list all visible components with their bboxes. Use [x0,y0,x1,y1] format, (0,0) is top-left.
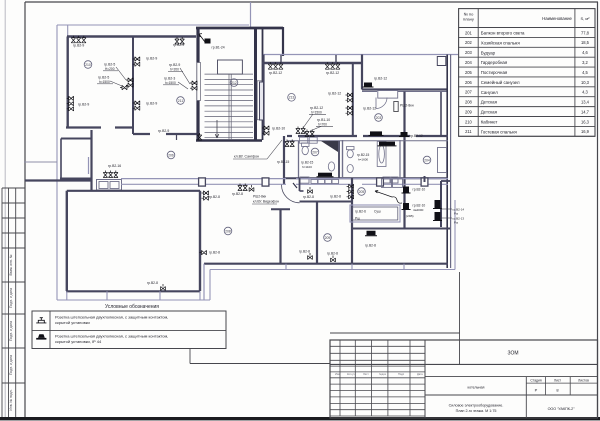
room number circles [84,61,92,69]
svg-text:гр.В2-8: гр.В2-8 [365,244,376,248]
svg-text:Подп. и дата: Подп. и дата [9,355,13,375]
svg-text:h=200: h=200 [170,67,179,71]
svg-text:гр.В2-9: гр.В2-9 [78,103,89,107]
fixtures bathroom 206 [347,142,387,173]
svg-text:h=1500: h=1500 [99,80,110,84]
svg-text:Розетка штепсельная двухполюсн: Розетка штепсельная двухполюсная, с защи… [55,334,168,339]
svg-text:4,6: 4,6 [582,50,588,55]
wall: bathroom top band [287,135,292,137]
svg-text:204: 204 [424,158,430,162]
svg-text:210: 210 [465,119,473,124]
svg-text:h=700: h=700 [318,122,327,126]
wall: room 202 bottom [362,88,448,90]
title block (osnovnaya nadpis) [330,332,460,334]
svg-text:Условные обозначения: Условные обозначения [105,304,159,310]
svg-text:Гостевая спальня: Гостевая спальня [481,129,518,134]
svg-text:210: 210 [85,63,91,67]
svg-text:гр.В2-15: гр.В2-15 [277,160,290,164]
callout box bud [350,205,400,222]
svg-text:План 2-го этажа. М 1:75: План 2-го этажа. М 1:75 [456,409,497,413]
wall: bottom band right rooms [204,263,448,265]
wall posts [199,178,206,186]
stair down arrow [215,120,219,138]
svg-text:203: 203 [376,116,382,120]
svg-text:гр.В2-6: гр.В2-6 [355,210,366,214]
svg-text:201: 201 [465,30,473,35]
door arc room 203 [376,98,387,109]
svg-text:211: 211 [465,129,472,134]
svg-text:Семейный санузел: Семейный санузел [481,80,520,85]
svg-text:гр.В2-12: гр.В2-12 [326,71,339,75]
svg-text:4,5: 4,5 [582,70,588,75]
wall: bottom of room 211 [133,133,150,135]
svg-text:208: 208 [465,100,473,105]
wall: left part y180 to frame [25,179,91,181]
svg-text:Инв. № подл.: Инв. № подл. [9,389,13,410]
svg-text:гр.В2-12: гр.В2-12 [269,71,282,75]
wall: y228.5 [352,228,450,230]
svg-text:3,2: 3,2 [582,60,588,65]
connector line from plan to stamp [459,272,461,340]
wall: left wall room 213 [262,55,264,136]
wall: big room 208 [67,190,200,192]
kitchen counter cells [300,137,308,143]
svg-text:207: 207 [465,90,473,95]
svg-text:202: 202 [465,40,473,45]
svg-text:Стадия: Стадия [530,379,541,383]
svg-text:ЗОМ: ЗОМ [507,351,518,357]
wall: long top band right part [263,54,458,56]
svg-text:гр.В2-8: гр.В2-8 [147,281,158,285]
svg-text:16,9: 16,9 [581,129,590,134]
svg-text:16,3: 16,3 [581,119,590,124]
svg-text:18,5: 18,5 [581,40,590,45]
svg-text:Рш: Рш [454,221,459,225]
svg-text:13,4: 13,4 [581,100,590,105]
facade tie top-left [67,25,69,37]
door jamb x299 [299,178,301,191]
svg-text:Лист: Лист [554,379,562,383]
stair stringer [228,74,230,140]
svg-text:скрытой установки, IP 44: скрытой установки, IP 44 [55,339,102,344]
wall: partition T x280 [271,208,290,210]
svg-text:S, м²: S, м² [580,16,590,21]
svg-text:РШ2-8кн: РШ2-8кн [253,195,266,199]
svg-text:кл.ВУ. Видеофон: кл.ВУ. Видеофон [253,200,279,204]
svg-text:Подп. и дата: Подп. и дата [9,321,13,341]
svg-text:гр.В2-10: гр.В2-10 [413,188,426,192]
svg-text:209: 209 [465,109,473,114]
svg-text:Балкон второго света: Балкон второго света [481,31,525,36]
svg-text:Хозяйская спальня: Хозяйская спальня [481,40,521,45]
svg-text:207: 207 [312,150,318,154]
svg-text:гр.В2-10: гр.В2-10 [272,127,285,131]
svg-text:Гардеробная: Гардеробная [481,60,508,65]
svg-text:Постирочная: Постирочная [481,70,508,75]
svg-text:209: 209 [325,236,331,240]
bathroom 206 walls [342,140,344,178]
svg-text:203: 203 [465,50,473,55]
svg-text:Санузел: Санузел [481,90,499,95]
door arc corridor [282,185,300,203]
svg-text:205: 205 [465,70,473,75]
svg-text:h=1100: h=1100 [302,165,312,169]
shaft walls [61,138,91,140]
svg-text:h=1500: h=1500 [165,81,176,85]
svg-text:гр.В2-12: гр.В2-12 [363,107,376,111]
svg-text:208: 208 [225,229,231,233]
wall: left wall room 210 [66,37,68,128]
svg-text:212: 212 [231,81,237,85]
svg-text:Рш: Рш [454,212,459,216]
svg-text:Взам. инв. №: Взам. инв. № [9,254,13,275]
svg-text:Р: Р [535,388,538,393]
stair treads [205,74,254,138]
svg-text:гр.В2-9: гр.В2-9 [158,129,169,133]
svg-text:Рш: Рш [355,217,360,221]
bathroom 207 walls [298,141,300,178]
wall: stub x424 [424,176,426,182]
svg-text:скрытой установки: скрытой установки [55,320,90,325]
svg-text:Подп. и дата: Подп. и дата [9,288,13,308]
svg-text:Будуар: Будуар [481,50,496,55]
svg-text:Кабинет: Кабинет [481,120,498,125]
svg-text:h=1600: h=1600 [358,157,368,161]
door jamb below room 211 [176,135,178,140]
svg-text:гр.В2-8: гр.В2-8 [330,195,341,199]
wall: building right wall [446,55,448,269]
svg-text:206: 206 [465,80,473,85]
room schedule table [459,9,595,137]
svg-text:4а2000: 4а2000 [413,208,424,212]
svg-text:№док: №док [379,373,387,376]
svg-text:гр.В2-12: гр.В2-12 [328,92,341,96]
svg-text:гр.В2-8: гр.В2-8 [327,252,338,256]
svg-text:Кол.уч: Кол.уч [347,372,355,376]
svg-text:Суш: Суш [374,210,381,214]
svg-text:гр.В2-9: гр.В2-9 [173,43,184,47]
corridor south double wall [121,178,286,180]
svg-text:204: 204 [465,60,473,65]
svg-text:h=1500: h=1500 [311,110,322,114]
wall: partition x317 [316,202,318,263]
laundry boxes [97,180,122,191]
svg-text:гр.В2-8: гр.В2-8 [232,192,243,196]
svg-text:гр.В2-8: гр.В2-8 [303,195,314,199]
svg-text:Лист: Лист [363,372,369,376]
wall: bottom of room 210 [66,126,101,128]
wall: duct x441 [440,92,442,136]
sheet frame [25,1,598,3]
svg-text:213: 213 [289,96,295,100]
svg-text:Детская: Детская [481,100,498,105]
svg-text:Н=200: Н=200 [105,67,115,71]
svg-text:205: 205 [359,190,365,194]
svg-text:гр.В2-9: гр.В2-9 [73,44,84,48]
svg-text:кл.ВУ. Сангфон: кл.ВУ. Сангфон [234,155,259,159]
svg-text:гр.В2-16: гр.В2-16 [108,164,121,168]
svg-text:Силовое электрооборудование.: Силовое электрооборудование. [449,404,504,408]
svg-text:206: 206 [168,153,174,157]
svg-text:14,7: 14,7 [581,109,590,114]
svg-text:гр.В2-10: гр.В2-10 [413,204,426,208]
wall: partition 213/203 [352,63,354,135]
svg-text:(24В): (24В) [406,214,414,218]
stair wall pilasters [197,63,201,101]
svg-text:гр.В2-9: гр.В2-9 [146,102,157,106]
svg-text:гр.В2-12: гр.В2-12 [374,77,387,81]
svg-text:ООО “УАКПК-2”: ООО “УАКПК-2” [548,407,576,411]
room 204 closet [438,148,447,173]
wall: room 202 left [361,55,363,90]
facade light outline [57,24,249,26]
svg-text:4,3: 4,3 [582,90,588,95]
wall: y201.5 [300,201,353,203]
door thresholds bottom of bathrooms [300,177,309,183]
svg-text:77,8: 77,8 [581,30,590,35]
svg-text:211: 211 [178,99,184,103]
svg-text:Листов: Листов [578,379,589,383]
svg-text:РШ2-8кн: РШ2-8кн [400,104,414,108]
svg-text:Розетка штепсельная двухполюсн: Розетка штепсельная двухполюсная, с защи… [55,315,168,320]
svg-text:гр.В2-8: гр.В2-8 [209,251,220,255]
stair well head [218,60,243,74]
svg-text:Детская: Детская [481,110,498,115]
left column strip (grafy) [2,187,25,189]
wall: vertical x404 [403,92,405,229]
wall: left wall of bath corridor [283,136,285,184]
wall: x441 closet [440,181,442,227]
fixtures bathroom 207 [302,143,335,171]
svg-text:гр.В2-8: гр.В2-8 [209,195,220,199]
svg-text:котельная: котельная [468,386,485,390]
svg-text:Изм: Изм [335,372,340,376]
outlets and labels [71,36,86,43]
wall: partition x352 [351,178,353,263]
svg-text:Подп: Подп [398,372,405,376]
svg-text:гр.В1-24: гр.В1-24 [212,46,225,50]
svg-text:гр.В2-8: гр.В2-8 [299,250,310,254]
svg-text:гр.В2-9: гр.В2-9 [146,57,157,61]
svg-text:гр.В2-12: гр.В2-12 [410,134,423,138]
stairwell walls [196,27,283,30]
svg-text:Дата: Дата [417,372,423,376]
wall: top of rooms 210-211 [67,35,196,37]
svg-text:Наименование: Наименование [542,16,572,21]
wall: partition room 210/211 [132,37,134,135]
svg-text:плану: плану [463,17,474,22]
svg-text:10,3: 10,3 [581,80,590,85]
